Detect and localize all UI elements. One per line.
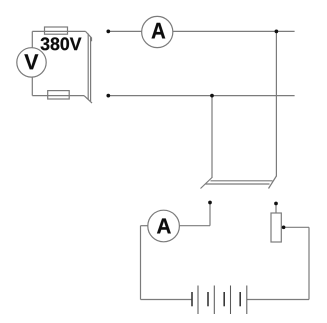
wire ammeter A1 to right	[173, 30, 295, 32]
battery cell 1 short plate	[191, 292, 193, 306]
battery cell 4 long plate	[246, 286, 248, 315]
fuse FU2 (bottom)	[48, 91, 69, 99]
wire right side of loop	[308, 227, 310, 299]
terminal node top left	[106, 30, 110, 34]
label A meter letter (bottom)	[157, 219, 171, 234]
wire ammeter A2 to left corner	[141, 225, 148, 227]
rheostat R1 body	[271, 213, 281, 242]
terminal node C	[208, 201, 212, 205]
fuse FU1 (top)	[45, 27, 68, 34]
wire terminal C down	[209, 204, 211, 226]
terminal node D rheostat top	[274, 202, 278, 206]
wire vertical drop right	[275, 31, 277, 176]
label 380V	[41, 37, 82, 50]
label A meter letter (top)	[152, 23, 166, 39]
slider bar top edge	[211, 180, 273, 182]
wire top supply line	[32, 30, 85, 32]
battery cell 4 short plate	[239, 292, 241, 306]
wire left vertical (voltmeter branch)	[31, 31, 33, 95]
wire bottom left to battery	[141, 299, 193, 301]
voltmeter V1 circle	[17, 48, 46, 77]
wire to ammeter A2 right side	[179, 225, 210, 227]
ammeter A2 circle	[148, 210, 180, 242]
junction node second wire	[210, 94, 214, 98]
wire rheostat top stub	[275, 206, 277, 214]
wire battery to bottom right corner	[247, 299, 309, 301]
battery GB cells	[192, 286, 247, 315]
slider bar left diagonal	[201, 178, 213, 189]
socket bracket diagonal top	[86, 31, 92, 41]
battery cell 2 long plate	[213, 286, 215, 315]
wire second line	[110, 95, 295, 97]
battery cell 2 short plate	[207, 292, 209, 306]
wire vertical drop left	[211, 96, 213, 178]
socket bracket outer vertical	[90, 37, 92, 101]
node rheostat slider	[282, 225, 286, 229]
wire terminal to ammeter A1	[110, 30, 142, 32]
terminal node bottom left	[106, 94, 110, 98]
slider bar right diagonal	[269, 176, 277, 189]
socket bracket diagonal bottom	[84, 96, 92, 103]
battery cell 1 long plate	[197, 286, 199, 315]
junction node top wire	[275, 30, 279, 34]
slider bar bottom edge	[206, 183, 270, 185]
ammeter A1 circle	[142, 16, 173, 47]
label V meter letter	[24, 54, 38, 69]
battery cell 3 long plate	[230, 286, 232, 315]
wire left side of loop	[140, 226, 142, 300]
wire rheostat slider to right side	[286, 226, 310, 228]
wire bottom supply line	[32, 95, 84, 97]
battery cell 3 short plate	[223, 292, 225, 306]
socket bracket inner vertical	[87, 34, 89, 100]
